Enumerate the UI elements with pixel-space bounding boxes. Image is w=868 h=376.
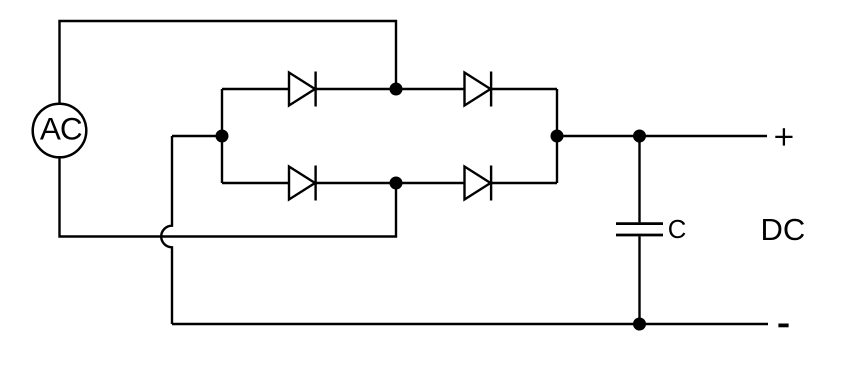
wire AC return: AC bottom to bridge bottom-center node — [60, 157, 397, 237]
wire top loop: AC top to bridge top-center — [60, 21, 397, 104]
wire left node stub — [172, 135, 222, 137]
wire left drop with hop over AC return — [161, 136, 172, 324]
label minus — [778, 323, 788, 327]
wire capacitor bottom lead — [638, 236, 640, 324]
wire bottom rail — [172, 323, 768, 325]
svg-text:AC: AC — [40, 110, 82, 146]
label + — [775, 128, 792, 145]
wire bridge left vertical — [221, 89, 223, 183]
diode D2 (top-right) — [465, 72, 492, 107]
junction dot: bottom center — [390, 177, 403, 190]
junction dot: capacitor top — [633, 130, 646, 143]
wire bridge bottom rail — [222, 182, 557, 184]
diode D3 (bottom-left) — [289, 166, 316, 201]
wire output plus rail — [557, 135, 767, 137]
svg-text:DC: DC — [761, 212, 806, 247]
diode D1 (top-left) — [289, 72, 316, 107]
AC source circle — [33, 104, 87, 158]
capacitor C plates — [616, 224, 663, 235]
wire bridge right vertical — [556, 89, 558, 183]
wire capacitor top lead — [638, 136, 640, 222]
wire bridge top rail — [222, 88, 557, 90]
node A dot: bridge left input — [216, 130, 229, 143]
svg-text:C: C — [668, 216, 687, 244]
node B dot: bridge right output — [551, 130, 564, 143]
junction dot: capacitor bottom — [633, 318, 646, 331]
diode D4 (bottom-right) — [465, 166, 492, 201]
junction dot: top center — [390, 83, 403, 96]
